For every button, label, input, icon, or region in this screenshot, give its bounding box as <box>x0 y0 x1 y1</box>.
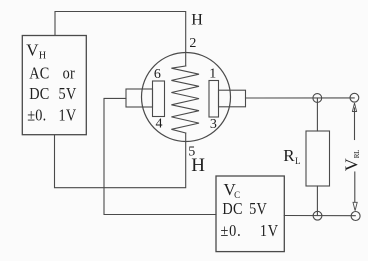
svg-text:2: 2 <box>189 36 196 51</box>
svg-text:H: H <box>191 12 203 29</box>
junction node top <box>313 94 322 103</box>
resistor RL body <box>306 131 330 186</box>
svg-text:5: 5 <box>188 144 195 159</box>
junction node bottom <box>313 211 322 220</box>
wire right electrode tab to top junction and output terminal <box>246 97 355 99</box>
voltage source VH box <box>22 36 86 135</box>
voltage source VC box <box>216 176 284 252</box>
svg-text:VRL: VRL <box>342 150 362 171</box>
svg-text:±0. 1V: ±0. 1V <box>221 222 279 240</box>
heater resistor zigzag <box>171 66 199 133</box>
svg-text:6: 6 <box>154 67 161 82</box>
output terminal top <box>350 93 359 102</box>
pin tab left <box>126 89 153 107</box>
svg-text:DC 5V: DC 5V <box>29 85 77 103</box>
svg-text:4: 4 <box>156 117 163 132</box>
svg-text:AC or: AC or <box>29 64 75 82</box>
wire VC right to bottom junction and output terminal <box>284 215 355 217</box>
VRL arrow up <box>352 103 356 112</box>
svg-text:RL: RL <box>283 146 300 166</box>
svg-text:DC 5V: DC 5V <box>222 200 267 218</box>
svg-text:1: 1 <box>209 66 216 81</box>
svg-text:VH: VH <box>26 40 46 61</box>
svg-text:VC: VC <box>224 180 241 200</box>
electrode plate left (pins 6-4) <box>153 81 165 117</box>
wire RL top lead <box>316 98 318 131</box>
wire heater pin 5 return to VH bottom <box>55 133 186 188</box>
output terminal bottom <box>351 212 360 221</box>
sensor envelope circle <box>142 53 231 142</box>
pin tab right <box>219 90 246 107</box>
wire VH top to heater pin 2 <box>55 12 186 67</box>
VRL measure line lower <box>354 172 356 202</box>
svg-text:±0. 1V: ±0. 1V <box>27 106 77 124</box>
VRL arrow down <box>353 202 357 210</box>
wire left electrode tab to VC left <box>104 98 216 214</box>
VRL measure line upper <box>354 108 356 140</box>
electrode plate right (pins 1-3) <box>209 81 219 118</box>
wire RL bottom lead <box>316 186 318 216</box>
svg-text:3: 3 <box>210 117 217 132</box>
